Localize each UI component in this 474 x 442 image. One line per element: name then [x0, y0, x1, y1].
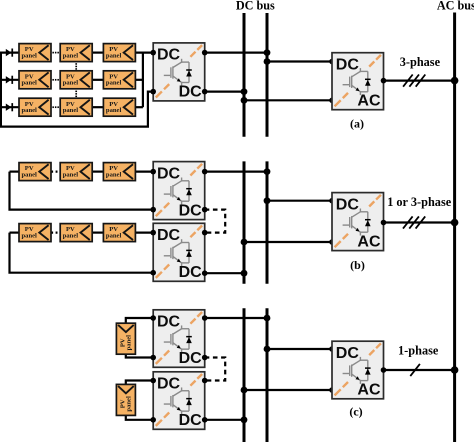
svg-text:AC: AC — [357, 93, 381, 110]
svg-text:DC: DC — [157, 227, 181, 244]
svg-text:panel: panel — [63, 107, 79, 114]
svg-text:DC: DC — [179, 264, 203, 281]
svg-text:panel: panel — [126, 335, 133, 351]
svg-text:DC: DC — [157, 314, 181, 331]
svg-text:panel: panel — [63, 232, 79, 239]
svg-text:panel: panel — [22, 232, 38, 239]
svg-text:panel: panel — [22, 52, 38, 59]
svg-text:(a): (a) — [350, 116, 364, 130]
svg-text:DC: DC — [157, 165, 181, 182]
svg-text:panel: panel — [63, 80, 79, 87]
svg-text:AC: AC — [357, 233, 381, 250]
svg-text:AC: AC — [357, 382, 381, 399]
svg-text:panel: panel — [106, 232, 122, 239]
svg-text:DC bus: DC bus — [236, 0, 275, 13]
svg-text:DC: DC — [336, 345, 360, 362]
svg-text:panel: panel — [22, 107, 38, 114]
svg-text:(b): (b) — [350, 258, 365, 272]
svg-text:panel: panel — [106, 171, 122, 178]
svg-text:panel: panel — [106, 52, 122, 59]
svg-text:DC: DC — [336, 57, 360, 74]
svg-text:DC: DC — [179, 412, 203, 429]
svg-text:panel: panel — [22, 80, 38, 87]
svg-text:1 or 3-phase: 1 or 3-phase — [387, 195, 452, 209]
svg-text:panel: panel — [106, 107, 122, 114]
svg-text:panel: panel — [63, 171, 79, 178]
svg-text:DC: DC — [157, 376, 181, 393]
svg-text:DC: DC — [157, 47, 181, 64]
svg-text:DC: DC — [336, 196, 360, 213]
svg-text:1-phase: 1-phase — [398, 344, 439, 358]
svg-text:DC: DC — [179, 350, 203, 367]
svg-text:DC: DC — [179, 202, 203, 219]
svg-text:panel: panel — [63, 52, 79, 59]
svg-text:panel: panel — [22, 171, 38, 178]
svg-text:DC: DC — [179, 84, 203, 101]
svg-text:3-phase: 3-phase — [400, 55, 441, 69]
svg-text:panel: panel — [106, 80, 122, 87]
svg-text:AC bus: AC bus — [437, 0, 474, 13]
svg-text:(c): (c) — [349, 404, 362, 418]
svg-text:panel: panel — [126, 396, 133, 412]
